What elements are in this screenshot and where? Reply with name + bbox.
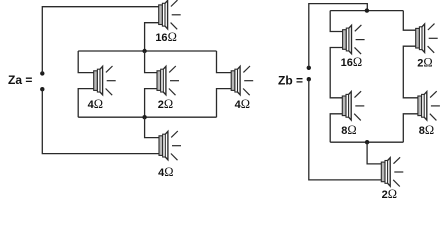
wire Za top bus [78,50,216,52]
speaker LS6 [343,25,365,54]
wire LS10 bottom to Zb bottom terminal [309,79,382,180]
wire Zb inner top bus [330,10,403,12]
wire Za top terminal to LS1 [42,7,158,74]
speaker LS5 [159,131,181,160]
terminal dot Za top [40,71,44,75]
wire J4 to LS10 top [367,142,381,164]
svg-text:4Ω: 4Ω [88,97,103,111]
svg-text:8Ω: 8Ω [341,123,356,137]
svg-text:16Ω: 16Ω [155,30,177,44]
svg-text:4Ω: 4Ω [235,97,250,111]
wire left branch bottom [78,89,94,118]
svg-text:Zb =: Zb = [278,74,303,88]
svg-text:2Ω: 2Ω [417,55,432,69]
junction J4 [365,140,369,144]
svg-text:4Ω: 4Ω [158,165,173,179]
wire J2 to LS5 top [145,117,159,137]
junction J1 [142,49,146,53]
speaker LS9 [418,91,440,120]
speaker LS7 [416,24,438,53]
terminal dot Za bottom [40,87,44,91]
svg-text:2Ω: 2Ω [382,187,397,201]
wire middle branch bottom [145,89,157,118]
wire LS5 bottom to Za bottom terminal [42,89,159,153]
wire Zb top terminal to top bus [309,4,368,68]
wire Za bottom bus [78,116,216,118]
wire LS7 bottom to LS9 top [403,46,418,98]
wire right branch bottom [217,89,232,118]
wire left column to LS6 top [330,11,342,32]
wire LS9 bottom to bottom bus [403,114,418,142]
speaker LS3 [157,66,179,95]
junction J3 [365,8,369,12]
wire LS1 bottom to top bus [145,23,159,51]
svg-text:8Ω: 8Ω [419,123,434,137]
wire right column to LS7 top [403,11,415,31]
speaker LS10 [381,157,403,186]
speaker LS4 [231,66,253,95]
terminal dot Zb top [307,66,311,70]
speaker LS1 [159,0,181,29]
wire Zb bottom bus [330,141,403,143]
svg-text:16Ω: 16Ω [341,55,363,69]
svg-text:Za =: Za = [8,73,32,87]
wire right branch top [217,51,232,73]
wire left branch top [78,51,94,73]
svg-text:2Ω: 2Ω [158,97,173,111]
speaker LS8 [342,91,364,120]
wire LS8 bottom to bottom bus [330,114,342,142]
junction J2 [142,115,146,119]
speaker LS2 [94,66,116,95]
wire LS6 bottom to LS8 top [330,48,342,98]
wire middle branch top [145,51,157,73]
terminal dot Zb bottom [307,77,311,81]
